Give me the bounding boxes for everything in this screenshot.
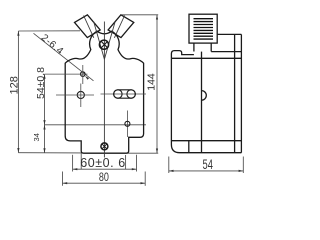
- svg-text:34: 34: [32, 133, 41, 141]
- svg-text:144: 144: [145, 73, 157, 91]
- svg-text:80: 80: [99, 171, 109, 185]
- svg-text:128: 128: [8, 76, 20, 94]
- svg-text:60±0. 6: 60±0. 6: [80, 156, 125, 170]
- svg-text:54: 54: [203, 159, 214, 173]
- svg-text:54±0.8: 54±0.8: [35, 67, 47, 99]
